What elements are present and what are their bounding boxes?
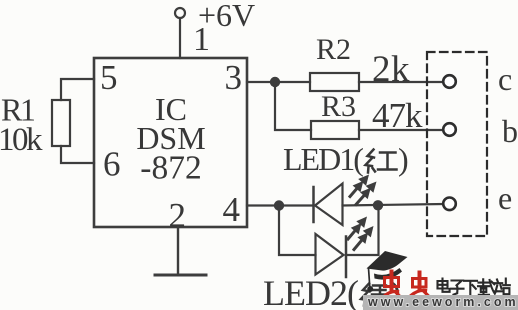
ground bar bbox=[155, 274, 206, 277]
LED1 cathode bar bbox=[312, 187, 315, 222]
wire R1 bottom to pin6 bbox=[61, 146, 94, 163]
svg-text:R2: R2 bbox=[316, 33, 351, 66]
wire node B to LED2 bbox=[279, 206, 316, 256]
svg-text:): ) bbox=[398, 141, 409, 177]
watermark hanzi chong 1 (red) bbox=[383, 272, 401, 298]
terminal e circle bbox=[443, 198, 456, 211]
ground wire from pin2 bbox=[177, 227, 179, 274]
wire R2 to terminal c bbox=[359, 81, 443, 83]
watermark cap tassel bbox=[369, 268, 370, 287]
watermark cap body bbox=[374, 268, 402, 280]
hanzi green (lv) bbox=[361, 284, 388, 306]
wire LED2 to node C bbox=[346, 206, 379, 256]
resistor R2 bbox=[310, 73, 359, 91]
transistor socket dashed box bbox=[427, 52, 487, 236]
svg-text:4: 4 bbox=[223, 190, 241, 229]
LED2 emission arrow 1 bbox=[348, 217, 367, 240]
watermark gray bar www.eeworm.com bbox=[363, 295, 518, 310]
watermark hanzi chong 2 (red) bbox=[411, 273, 428, 296]
svg-text:10k: 10k bbox=[0, 122, 43, 158]
svg-text:c: c bbox=[498, 61, 512, 97]
LED2 triangle bbox=[316, 234, 344, 275]
svg-text:2k: 2k bbox=[372, 49, 410, 90]
wire pin3 to node A bbox=[247, 81, 310, 83]
watermark graduation cap board bbox=[367, 251, 408, 272]
LED1 triangle bbox=[315, 184, 343, 226]
IC U1 DSM-872 body bbox=[94, 58, 247, 227]
wire R3 to terminal b bbox=[359, 129, 443, 131]
svg-text:LED1(: LED1( bbox=[283, 141, 363, 177]
svg-text:b: b bbox=[502, 113, 518, 149]
wire pin5 to R1 top bbox=[61, 79, 94, 100]
resistor R3 bbox=[311, 121, 359, 139]
node A junction dot bbox=[270, 77, 280, 87]
svg-text:5: 5 bbox=[100, 58, 118, 97]
LED1 emission arrow 2 bbox=[356, 182, 377, 205]
svg-text:R3: R3 bbox=[321, 90, 356, 123]
wire LED1 to node C bbox=[343, 204, 444, 206]
svg-text:3: 3 bbox=[225, 58, 243, 97]
svg-text:6: 6 bbox=[103, 145, 121, 184]
LED2 cathode bar bbox=[345, 237, 348, 278]
power terminal +6V circle bbox=[175, 8, 185, 18]
LED2 emission arrow 2 bbox=[354, 226, 374, 250]
svg-text:e: e bbox=[498, 180, 512, 216]
svg-text:+6V: +6V bbox=[198, 0, 255, 33]
wire pin1 to +6V bbox=[179, 19, 181, 59]
node C junction dot bbox=[373, 200, 383, 210]
watermark text dianzi xiazai zhan bbox=[438, 279, 510, 295]
svg-text:LED2(: LED2( bbox=[263, 273, 358, 310]
wire node A down to R3 bbox=[275, 82, 311, 130]
svg-text:-872: -872 bbox=[140, 150, 201, 187]
resistor R1 bbox=[52, 100, 70, 146]
hanzi red (hong) bbox=[366, 150, 397, 173]
svg-text:www.eeworm.com: www.eeworm.com bbox=[367, 295, 518, 309]
terminal c circle bbox=[443, 75, 456, 88]
watermark cap white swoosh bbox=[371, 263, 403, 272]
wire pin4 to LED1 bbox=[247, 204, 314, 206]
terminal b circle bbox=[443, 123, 456, 136]
LED1 emission arrow 1 bbox=[350, 175, 369, 197]
node B junction dot bbox=[274, 200, 284, 210]
